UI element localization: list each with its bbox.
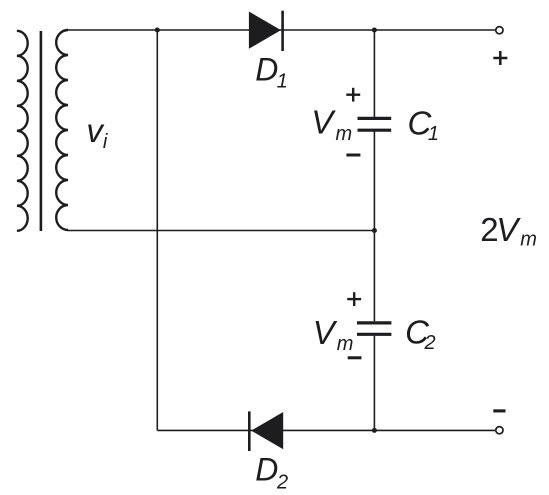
capacitor C2 xyxy=(357,323,391,334)
svg-text:C2: C2 xyxy=(405,314,435,354)
diode D2 xyxy=(249,411,283,451)
plus sign at C2 xyxy=(347,292,361,306)
minus sign at C2 xyxy=(348,356,362,359)
svg-text:Vm: Vm xyxy=(313,314,354,355)
capacitor C1 xyxy=(358,118,392,130)
node junction D1 output xyxy=(372,28,377,33)
node bottom junction xyxy=(372,428,377,433)
transformer primary winding xyxy=(17,31,28,231)
node junction top-left xyxy=(155,28,160,33)
diode D1 xyxy=(249,11,283,51)
svg-text:D2: D2 xyxy=(255,452,288,494)
output terminal plus xyxy=(496,27,503,34)
plus sign output xyxy=(493,51,507,65)
wire C2 to bottom node xyxy=(373,336,375,431)
wire middle node to C2 xyxy=(373,231,375,322)
svg-text:vi: vi xyxy=(86,112,108,153)
svg-text:D1: D1 xyxy=(255,52,288,93)
wire left vertical xyxy=(156,30,158,430)
wire bottom xyxy=(157,429,495,431)
svg-text:C1: C1 xyxy=(408,104,439,145)
svg-text:2Vm: 2Vm xyxy=(480,211,537,251)
minus sign output xyxy=(493,409,505,412)
output terminal minus xyxy=(496,427,503,434)
transformer core xyxy=(40,31,43,231)
minus sign at C1 xyxy=(346,154,360,157)
svg-text:Vm: Vm xyxy=(311,104,352,146)
wire top xyxy=(67,29,495,31)
plus sign at C1 xyxy=(346,88,360,102)
wire D1 node to C1 xyxy=(373,30,375,117)
wire C1 to middle node xyxy=(373,132,375,231)
wire middle (secondary bottom to node) xyxy=(67,230,374,232)
node middle junction xyxy=(372,228,377,233)
transformer secondary winding xyxy=(56,30,68,230)
